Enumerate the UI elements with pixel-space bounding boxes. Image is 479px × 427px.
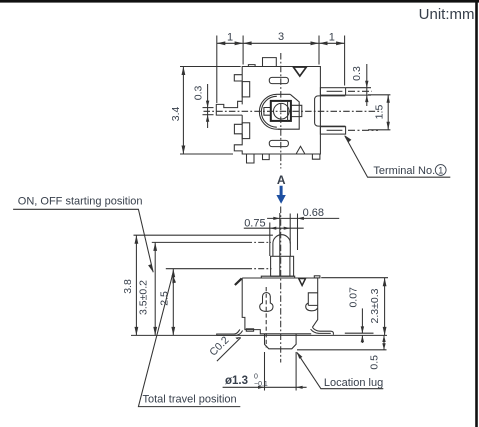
switch body outline (top view): [216, 67, 320, 155]
0.3 left extension: [207, 84, 209, 128]
right central tab: [315, 96, 346, 126]
svg-text:3: 3: [278, 31, 284, 43]
extension lines top chain: [216, 36, 218, 104]
label C0.2: [217, 338, 241, 361]
unit label: [419, 6, 475, 23]
svg-text:1.5: 1.5: [373, 105, 385, 120]
svg-text:Total travel position: Total travel position: [143, 394, 237, 406]
body outline (front view): [242, 278, 318, 334]
svg-text:Location lug: Location lug: [324, 377, 383, 389]
actuator key tab right: [291, 105, 302, 116]
1.5 dimension line: [387, 95, 389, 130]
page right border: [475, 0, 478, 427]
svg-text:2.5: 2.5: [158, 291, 170, 306]
foot terminal right: [311, 327, 334, 335]
actuator D-shape outer: [259, 94, 290, 129]
plunger collar: [271, 256, 294, 276]
3.4 extension lines: [180, 66, 241, 68]
on-off position line: [152, 241, 246, 243]
svg-text:0.3: 0.3: [351, 66, 363, 81]
svg-text:0.5: 0.5: [368, 355, 380, 370]
keyhole left blob: [260, 303, 273, 311]
svg-text:1: 1: [329, 32, 335, 44]
seating plane line: [131, 334, 387, 336]
terminal lower centerline: [327, 129, 343, 131]
top edge small bump: [248, 65, 255, 67]
svg-text:3.4: 3.4: [170, 106, 182, 121]
collar inner line: [289, 256, 291, 276]
terminal upper (top view): [320, 88, 345, 95]
slot lower: [269, 140, 288, 146]
terminal no leader: [345, 136, 450, 177]
dimension line 1-3-1: [217, 42, 345, 44]
bottom tab mid: [263, 154, 270, 160]
dim 2.5: [172, 269, 174, 336]
section arrow: [276, 186, 285, 204]
svg-text:−0.1: −0.1: [254, 381, 268, 388]
dim 0.5: [297, 349, 387, 351]
svg-text:0.3: 0.3: [192, 85, 204, 100]
keyhole left stem: [263, 292, 271, 303]
dim 0.07: [345, 332, 374, 334]
svg-text:0: 0: [254, 374, 258, 381]
terminal lower (top view): [320, 127, 345, 134]
svg-text:ø1.3: ø1.3: [225, 375, 248, 387]
top edge tab: [263, 58, 277, 67]
1.5 ext lines: [368, 94, 390, 96]
horizontal centerline: [204, 110, 382, 112]
vertical centerline: [280, 53, 282, 169]
3.4 dimension line: [182, 67, 184, 155]
svg-text:1: 1: [438, 165, 443, 175]
plunger dome: [273, 235, 290, 257]
bottom tab right: [312, 154, 320, 159]
svg-text:0.68: 0.68: [303, 207, 324, 219]
svg-text:A: A: [277, 173, 286, 187]
free position line: [134, 234, 273, 236]
svg-text:Terminal No.: Terminal No.: [373, 165, 435, 177]
page top border: [0, 0, 479, 3]
svg-text:ON, OFF starting position: ON, OFF starting position: [18, 196, 143, 208]
svg-text:3.5±0.2: 3.5±0.2: [137, 280, 149, 315]
dim 3.5±0.2: [154, 242, 156, 335]
keyhole right rect: [308, 293, 317, 306]
location lug outline: [265, 334, 297, 349]
svg-text:0.07: 0.07: [347, 287, 359, 308]
slot upper: [269, 77, 288, 83]
dim 2.3±0.3: [321, 277, 388, 279]
actuator inner vertical: [287, 101, 289, 121]
small triangle bottom: [296, 146, 304, 153]
svg-text:1: 1: [227, 32, 233, 44]
dim 0.68: [267, 217, 339, 219]
inner pocket lower-left: [242, 123, 250, 139]
svg-text:Unit:mm: Unit:mm: [419, 6, 475, 23]
dim 0.75: [244, 227, 304, 229]
orientation triangle top-right: [293, 67, 306, 76]
actuator inner square: [271, 101, 291, 121]
terminal upper centerline: [327, 90, 343, 92]
0.3 right ext lines: [346, 87, 371, 89]
actuator left slot: [264, 108, 271, 116]
top plate: [261, 276, 294, 278]
keyhole right blob: [306, 303, 318, 311]
corner mark top-right: [314, 276, 320, 278]
actuator circle: [274, 103, 290, 119]
plunger ext lines: [269, 223, 271, 257]
dim dia 1.3: [264, 352, 266, 391]
bottom tab left: [247, 154, 255, 163]
foot terminal left: [217, 330, 243, 336]
svg-text:0.75: 0.75: [244, 217, 265, 229]
svg-text:3.8: 3.8: [122, 279, 134, 294]
bottom-left slot: [246, 329, 253, 331]
total travel line: [166, 268, 246, 270]
centerline vertical (front): [280, 207, 282, 363]
orientation triangle (front): [299, 279, 306, 286]
svg-text:2.3±0.3: 2.3±0.3: [369, 288, 381, 323]
inner pocket upper-left: [242, 82, 250, 97]
hidden line keyhole: [265, 287, 267, 348]
dim 3.8: [135, 235, 137, 335]
kick tab top-left: [235, 278, 242, 285]
actuator double arc: [261, 96, 276, 127]
